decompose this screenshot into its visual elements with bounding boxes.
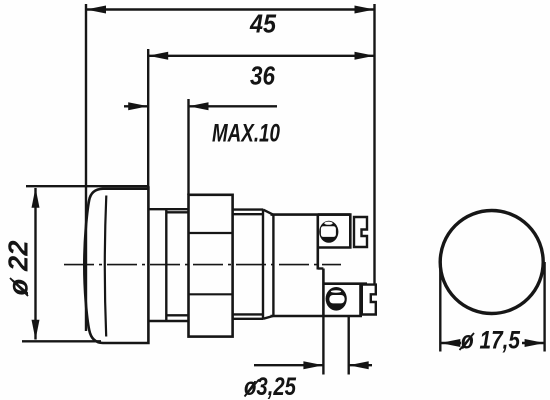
upper screw head [319, 221, 338, 243]
dimension MAX.10 tail right [189, 105, 278, 107]
dimension dia22 arrow bottom [32, 320, 40, 340]
dimension dia3,25 tail left [254, 364, 323, 366]
dimension 36 line [148, 55, 374, 57]
dimension dia3,25 tail right [349, 364, 372, 366]
upper clamp [354, 217, 367, 247]
front view circle [440, 211, 543, 314]
lower screw glint [331, 290, 341, 293]
dimension 45 extension line left [85, 4, 87, 331]
dimension MAX.10 extension line right [187, 99, 189, 195]
chamfer top [263, 210, 273, 215]
dimension 45 line [86, 8, 375, 10]
dimension dia3,25 arrow right [349, 361, 369, 369]
svg-text:45: 45 [249, 9, 276, 39]
dimension dia3,25 extension line right [348, 316, 350, 375]
chamfer bottom [263, 316, 273, 319]
dimension dia22 line [34, 188, 36, 340]
button cap outline [84, 186, 148, 343]
housing step vertical [322, 269, 325, 317]
dimension 36 arrow right [355, 52, 375, 60]
hex nut body [189, 195, 233, 337]
lower screw head [326, 287, 347, 311]
housing bottom edge [271, 315, 363, 318]
washer top edge [166, 211, 188, 213]
lower clamp [362, 285, 376, 315]
dimension dia17,5 extension line right [543, 262, 545, 352]
dimension 36 arrow left [148, 52, 168, 60]
threaded stem crest bottom [233, 318, 263, 320]
dimension dia17,5 extension line left [439, 262, 441, 352]
upper terminal block [318, 215, 351, 248]
dimension dia22 extension line top [26, 185, 148, 187]
hex nut facet line lower [189, 293, 233, 295]
dimension dia17,5 line right [522, 342, 545, 344]
collar front edge [165, 209, 167, 321]
dimension 36 extension line left [147, 49, 149, 188]
washer bottom edge [166, 314, 188, 316]
dimension dia3,25 arrow left [303, 361, 323, 369]
button cap inner contour [105, 196, 106, 337]
dimension dia17,5 arrow right [525, 339, 545, 347]
housing step horizontal [318, 267, 324, 269]
threaded stem root top [233, 213, 263, 215]
threaded stem root bottom [233, 313, 263, 315]
svg-text:ø 17,5: ø 17,5 [461, 327, 521, 355]
lower terminal block rear edge [359, 284, 362, 316]
hex nut facet line upper [189, 232, 233, 234]
dimension 45 arrow right [355, 6, 375, 14]
dimension MAX.10 tail left [124, 105, 148, 107]
upper screw slot [321, 226, 336, 237]
dia slash extension for label 17,5 [460, 333, 475, 350]
dia slash extension for label 3,25 [245, 380, 260, 397]
housing rear edge [316, 215, 319, 270]
threaded stem end edge [262, 210, 264, 319]
threaded stem crest top [233, 208, 263, 210]
dimension 45/36 extension line right [373, 4, 375, 285]
dia slash extension for label 22 [10, 278, 28, 296]
dimension dia22 arrow top [32, 188, 40, 208]
svg-text:MAX.10: MAX.10 [212, 120, 280, 148]
dimension MAX.10 arrow left [128, 102, 148, 110]
svg-text:36: 36 [250, 61, 275, 91]
dimension 45 arrow left [86, 6, 106, 14]
dimension MAX.10 arrow right [189, 102, 209, 110]
centerline axis [64, 264, 341, 266]
housing top edge [271, 213, 351, 216]
collar bottom edge [149, 320, 189, 322]
upper screw glint [324, 222, 332, 225]
housing front edge [272, 215, 274, 316]
lower terminal block top edge [323, 282, 367, 285]
dimension dia17,5 line left [440, 342, 461, 344]
collar top edge [149, 208, 189, 210]
dimension dia22 extension line bottom [22, 340, 101, 342]
dimension dia3,25 extension line left [322, 316, 324, 375]
dimension dia17,5 arrow left [440, 339, 460, 347]
lower screw slot [329, 295, 344, 303]
